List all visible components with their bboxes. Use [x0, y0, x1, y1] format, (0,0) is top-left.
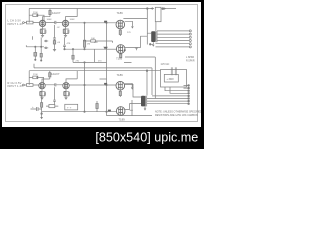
resistor R8 blob [53, 41, 55, 44]
svg-text:100K: 100K [70, 19, 76, 21]
svg-text:12AX7: 12AX7 [51, 72, 60, 76]
resistor R5c V4 cathode [119, 90, 121, 97]
capacitor C2 coupling [55, 21, 56, 24]
node PS terminals [188, 85, 190, 87]
capacitor C11 [104, 21, 107, 23]
wire B+ stub [164, 8, 177, 10]
capacitor C13 [104, 83, 107, 85]
svg-text:270K: 270K [33, 12, 38, 14]
wire V6 grid bus [42, 111, 117, 113]
node input jack R [23, 84, 25, 86]
wire PS outputs [152, 86, 188, 96]
transformer T1 core [156, 31, 157, 42]
wire V1b cathode [40, 89, 46, 98]
capacitor stub A [44, 40, 48, 42]
resistor R2 grid [27, 21, 34, 24]
resistor R15 [49, 105, 55, 108]
tube V6 output [116, 107, 125, 116]
wire T1 primary vertical [140, 9, 151, 45]
wire speaker taps [156, 31, 190, 47]
resistor R4 cathode [63, 30, 65, 34]
wire plate feed V1b [29, 71, 43, 85]
wire input L [24, 22, 39, 24]
wire T2 secondary leads [147, 99, 188, 104]
capacitor stub B [44, 47, 48, 49]
wire grid V5 [107, 48, 117, 50]
resistor R1 plate [33, 14, 38, 17]
ground T1 [152, 45, 154, 47]
capacitor C6 bypass [44, 92, 45, 95]
wire grid V4 [69, 84, 116, 86]
svg-text:117V.AC: 117V.AC [161, 63, 170, 66]
schematic frame [6, 5, 198, 122]
wire V2b cathode [64, 89, 70, 98]
svg-text:7189: 7189 [116, 57, 123, 61]
resistor R11b [49, 73, 51, 77]
node splitter b [84, 84, 85, 85]
transformer T1 winding [151, 31, 155, 42]
transformer T2 winding [141, 96, 145, 107]
arrow B+ [164, 7, 166, 9]
node bus [64, 49, 65, 50]
svg-text:NFB: NFB [104, 47, 109, 49]
svg-text:INPUT 1.4V: INPUT 1.4V [8, 22, 24, 26]
svg-text:12AX7: 12AX7 [52, 11, 61, 15]
resistor R10 [91, 40, 96, 42]
wire plate feed V1 [29, 9, 44, 23]
wire rail drop to T2 [146, 71, 148, 96]
svg-text:10K: 10K [91, 38, 95, 40]
arrow rail feed [150, 7, 153, 9]
black border right [201, 0, 204, 149]
transformer T2 core [146, 96, 147, 107]
wire V1 cathode [40, 27, 46, 36]
wire V1 plate top [43, 9, 51, 21]
capacitor C7 coupling [55, 83, 56, 86]
wire T1 ground lead [151, 42, 153, 44]
svg-text:RESISTORS ARE 1/2W 10% CARBON: RESISTORS ARE 1/2W 10% CARBON [155, 114, 198, 117]
tube V1 [39, 20, 45, 26]
ground arrow [40, 117, 43, 119]
resistor R19 [41, 103, 43, 108]
capacitor C1 bypass [45, 30, 46, 33]
black border top [0, 0, 204, 2]
tube V5 output [116, 45, 125, 54]
capacitor chain b [53, 87, 56, 104]
svg-text:100K: 100K [47, 19, 53, 21]
capacitor C10 can [65, 104, 78, 110]
svg-text:+ 360V: + 360V [167, 79, 175, 81]
node speaker terminals [189, 30, 191, 32]
node B+ takeoff [162, 8, 164, 10]
wire cathode return [107, 115, 153, 117]
wire V5 cathode return [124, 57, 155, 99]
resistor R6 [34, 53, 37, 57]
power plug prongs [171, 67, 177, 75]
ground [40, 98, 43, 100]
wire V5 plate [125, 36, 140, 47]
capacitor C3 bypass [68, 30, 69, 33]
wire V2 top to bus [66, 9, 78, 21]
svg-text:7189: 7189 [117, 73, 124, 77]
wire V6 side vertical [130, 100, 133, 116]
wire splitter grid line [65, 48, 107, 50]
node R1 [37, 15, 38, 16]
capacitor tick [135, 48, 138, 50]
capacitor C8 bypass [68, 92, 69, 95]
wire coupling b [45, 84, 62, 86]
node bias [35, 46, 36, 47]
svg-text:L SPKR: L SPKR [186, 57, 194, 59]
resistor R1b [49, 10, 51, 14]
resistor R3 cathode [40, 30, 42, 34]
svg-text:1M: 1M [87, 44, 90, 46]
ground [64, 36, 67, 38]
wire drop [84, 85, 86, 112]
wire filter drop [41, 112, 43, 118]
wire long mid line [34, 64, 152, 95]
resistor R7 tick [32, 36, 34, 40]
svg-text:+: + [32, 105, 34, 109]
tube V3 output [116, 20, 125, 29]
svg-text:7189: 7189 [119, 117, 126, 121]
node splitter [84, 22, 85, 23]
node tap junction [149, 44, 151, 46]
wire filter vertical [41, 96, 43, 112]
resistor R13 cathode [40, 92, 42, 96]
node V5 plate [124, 50, 125, 51]
wire V3 cathode right [125, 21, 133, 26]
resistor R18 [40, 53, 42, 57]
rectifier PS box [161, 70, 187, 88]
choke box [155, 7, 161, 21]
wire coupling [46, 22, 62, 24]
wire V2 plate to V3 grid [69, 22, 116, 24]
svg-text:7189: 7189 [117, 11, 124, 15]
svg-text:INPUT 1.4V: INPUT 1.4V [8, 84, 24, 88]
capacitor C12 [104, 47, 107, 49]
wire V4 plate to T2 [124, 84, 141, 97]
wire V3 cathode resistor [119, 29, 121, 36]
node input jack L [23, 22, 25, 24]
resistor R16 [96, 104, 98, 109]
capacitor C9 filter [31, 107, 42, 111]
tube V1b [39, 83, 45, 89]
svg-text:47K: 47K [67, 43, 71, 45]
wire V1b plate top [42, 71, 50, 83]
wire V6 plate to T2 [125, 104, 141, 110]
resistor R14 cathode [64, 92, 66, 96]
resistor R17 [72, 55, 74, 59]
wire V2 cathode [63, 27, 69, 36]
tube V4 output [116, 81, 125, 90]
resistor R12 grid [27, 84, 34, 87]
filter chain bottom [31, 85, 153, 119]
wire lower link [73, 49, 107, 85]
wire B+ rail top channel [29, 8, 154, 10]
resistor R9 drop [83, 40, 85, 47]
wire B+ rail bottom channel [29, 70, 160, 72]
svg-text:[850x540] upic.me: [850x540] upic.me [95, 130, 198, 144]
node rail junction [147, 8, 149, 10]
ground T2 [144, 106, 146, 108]
resistor R5 [119, 30, 121, 35]
svg-text:+ +: + + [67, 106, 72, 110]
svg-text:270K: 270K [33, 74, 38, 76]
wire cathode bias bus top [26, 45, 44, 60]
capacitor C14 [108, 110, 111, 112]
svg-text:R SPKR: R SPKR [186, 61, 195, 63]
ground [53, 50, 56, 52]
wire long vertical left [40, 37, 42, 60]
capacitor C4 chain [53, 25, 56, 49]
node R11 [37, 77, 38, 78]
wire input R [24, 84, 38, 86]
wire NFB line [84, 41, 113, 43]
wire choke to T1 core [155, 22, 157, 31]
black border left [0, 0, 2, 149]
ground [64, 98, 67, 100]
capacitor C5 chain [63, 37, 66, 49]
wire V2b top to bus [66, 71, 107, 83]
ground arrow V4 [131, 87, 134, 89]
resistor R11 plate [33, 76, 38, 79]
ground arrow V3 [131, 26, 134, 28]
wire V4 cathode right [125, 83, 133, 87]
resistor R5b V5 cathode [120, 52, 122, 55]
watermark bar [0, 127, 204, 149]
wire V3 plate to T1 [123, 18, 147, 20]
tube V2b [63, 83, 69, 89]
svg-text:22K: 22K [94, 42, 98, 44]
ground [41, 36, 44, 38]
tube V2 [62, 20, 68, 26]
wire long feedback vertical [106, 23, 108, 116]
